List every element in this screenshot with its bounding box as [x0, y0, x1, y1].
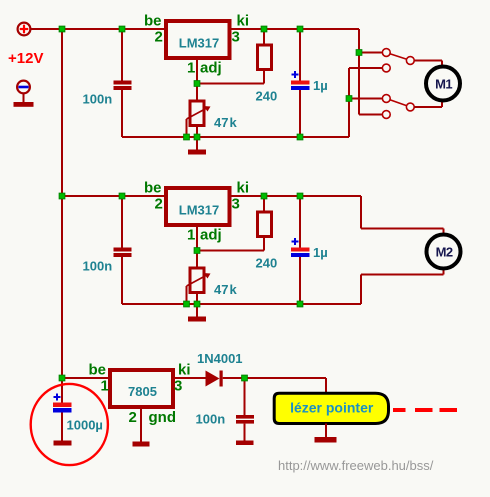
capacitor 100n input bypass (stage 1)	[114, 29, 132, 137]
wire pot bottom through rail to ground (stage 2)	[196, 293, 198, 317]
node junction resistor 240 top (stage 1)	[261, 26, 267, 32]
red dashed laser beam dash 2	[415, 408, 433, 412]
+12V plus supply terminal symbol	[18, 23, 31, 36]
annotation red ellipse around 1000u	[31, 384, 108, 465]
svg-text:1: 1	[187, 227, 195, 244]
wire LM317 U2 output toward M2	[230, 195, 362, 197]
node junction main rail stage1	[59, 26, 65, 32]
switch contact terminal 3	[382, 95, 390, 103]
wire ground rail (stage 1)	[122, 136, 349, 138]
svg-text:be: be	[144, 13, 162, 30]
svg-text:http://www.freeweb.hu/bss/: http://www.freeweb.hu/bss/	[278, 458, 434, 473]
svg-text:be: be	[144, 180, 162, 197]
wire switch row3	[349, 98, 383, 100]
wire ground rail (stage 2)	[122, 303, 361, 305]
switch contact terminal 2	[382, 64, 390, 72]
wire switch pole B to M1	[414, 106, 442, 108]
svg-text:+12V: +12V	[8, 50, 43, 67]
regulator LM317 U2 box	[166, 188, 230, 225]
svg-text:be: be	[89, 362, 107, 379]
svg-text:ki: ki	[237, 13, 250, 30]
wire switch row1	[359, 52, 383, 54]
capacitor 1u output electrolytic (stage 2)	[291, 196, 310, 304]
svg-text:2: 2	[155, 196, 163, 213]
wire main rail to 7805 input	[62, 377, 110, 379]
svg-text:1µ: 1µ	[313, 78, 328, 93]
wire adj to resistor 240 bottom (stage 2)	[197, 250, 264, 252]
svg-text:ki: ki	[178, 362, 191, 379]
wire adj pin down to potentiometer (stage 1)	[196, 58, 198, 101]
svg-text:M2: M2	[436, 244, 453, 259]
svg-text:240: 240	[256, 256, 278, 271]
wire diode to laser pointer	[223, 377, 326, 379]
ground under minus terminal	[14, 94, 34, 107]
capacitor 100n output bypass	[236, 378, 254, 441]
node junction 100n top (stage 1)	[119, 26, 125, 32]
svg-text:7805: 7805	[128, 384, 157, 399]
laser pointer block	[274, 393, 388, 423]
wire 7805 gnd pin down	[140, 407, 142, 442]
svg-text:1000µ: 1000µ	[67, 418, 103, 433]
motor M1	[426, 67, 460, 101]
svg-text:1µ: 1µ	[313, 245, 328, 260]
svg-text:2: 2	[129, 409, 137, 426]
potentiometer 47k (stage 1)	[187, 101, 211, 137]
red dashed laser beam dash 1	[393, 408, 406, 412]
resistor 240 (stage 1)	[258, 45, 272, 70]
diode 1N4001	[206, 371, 223, 387]
regulator 7805 U3 box	[110, 370, 173, 407]
node junction 1u top (stage 1)	[297, 26, 303, 32]
switch pole terminal A	[406, 57, 414, 65]
wire M2 top feed	[360, 196, 362, 229]
switch contact terminal 1	[382, 49, 390, 57]
ground symbol under 7805	[133, 442, 150, 447]
wire rail up to switch row2	[348, 68, 350, 137]
wire switch pole A to M1	[414, 60, 442, 62]
wire adj to resistor 240 bottom (stage 1)	[197, 83, 264, 85]
node junction pot bottom on rail (stage 2)	[194, 301, 200, 307]
svg-text:M1: M1	[435, 77, 452, 92]
svg-text:adj: adj	[200, 227, 222, 244]
node junction 1u top (stage 2)	[297, 193, 303, 199]
wire adj pin down to potentiometer (stage 2)	[196, 225, 198, 268]
svg-text:3: 3	[174, 378, 182, 395]
svg-text:LM317: LM317	[179, 36, 219, 51]
svg-text:3: 3	[232, 196, 240, 213]
node junction 1u bottom on rail (stage 1)	[297, 134, 303, 140]
node junction pot wiper on rail (stage 1)	[184, 134, 190, 140]
capacitor 1u output electrolytic (stage 1)	[291, 29, 310, 137]
wire +12V to LM317 U1 pin2	[30, 28, 166, 30]
ground symbol under 1000u	[54, 441, 72, 446]
switch lever A	[390, 54, 407, 60]
capacitor 1000u electrolytic	[53, 378, 72, 441]
svg-text:100n: 100n	[83, 92, 113, 107]
svg-text:1N4001: 1N4001	[197, 351, 243, 366]
ground symbol under laser pointer	[315, 437, 337, 443]
switch lever B	[390, 100, 407, 106]
svg-text:LM317: LM317	[179, 203, 219, 218]
node junction 1u bottom on rail (stage 2)	[297, 301, 303, 307]
wire M2 bottom return	[360, 275, 362, 305]
wire resistor 240 top stub (stage 2)	[263, 196, 265, 212]
ground symbol under output 100n	[236, 441, 254, 446]
svg-text:3: 3	[232, 29, 240, 46]
wire laser pointer to ground	[325, 424, 327, 438]
node junction resistor 240 top (stage 2)	[261, 193, 267, 199]
wire 7805 output to diode	[173, 377, 206, 379]
svg-text:1: 1	[101, 378, 109, 395]
switch pole terminal B	[406, 103, 414, 111]
svg-text:2: 2	[155, 29, 163, 46]
capacitor 100n input bypass (stage 2)	[114, 196, 132, 304]
potentiometer 47k (stage 2)	[187, 268, 211, 304]
resistor 240 (stage 2)	[258, 212, 272, 237]
wire main rail to LM317 U2 input	[62, 195, 166, 197]
switch contact terminal 4	[382, 111, 390, 119]
node junction main rail stage2	[59, 193, 65, 199]
red dashed laser beam dash 3	[440, 408, 458, 412]
svg-text:100n: 100n	[196, 412, 226, 427]
node junction 100n top (stage 2)	[119, 193, 125, 199]
node junction main rail 7805 input	[59, 375, 65, 381]
node junction 100n output cap	[242, 375, 248, 381]
node junction adj (stage 2)	[194, 248, 200, 254]
svg-text:1: 1	[187, 60, 195, 77]
svg-text:ki: ki	[237, 180, 250, 197]
node junction pot bottom on rail (stage 1)	[194, 134, 200, 140]
svg-text:47 k: 47 k	[214, 115, 238, 130]
svg-text:lézer pointer: lézer pointer	[290, 399, 374, 415]
wire resistor 240 top stub (stage 1)	[263, 29, 265, 45]
minus supply terminal symbol	[17, 81, 30, 94]
motor M2	[427, 235, 461, 269]
wire LM317 U1 output to switch	[230, 28, 360, 30]
regulator LM317 U1 box	[166, 21, 230, 58]
wire pot bottom through rail to ground (stage 1)	[196, 126, 198, 150]
node junction adj (stage 1)	[194, 81, 200, 87]
wire main +12V vertical rail	[61, 29, 63, 378]
wire switch row4	[359, 114, 383, 116]
node junction switch row3	[346, 96, 352, 102]
ground symbol (stage 2)	[188, 317, 206, 322]
svg-text:240: 240	[256, 89, 278, 104]
svg-text:100n: 100n	[83, 259, 113, 274]
svg-text:47 k: 47 k	[214, 282, 238, 297]
svg-text:gnd: gnd	[149, 409, 177, 426]
node junction switch row1	[356, 50, 362, 56]
node junction pot wiper on rail (stage 2)	[184, 301, 190, 307]
svg-text:adj: adj	[200, 60, 222, 77]
ground symbol (stage 1)	[188, 150, 206, 155]
